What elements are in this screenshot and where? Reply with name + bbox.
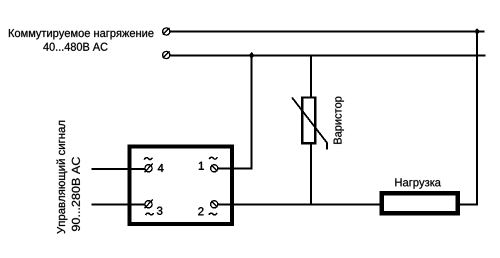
wire: second line L2	[171, 55, 486, 57]
varistor diagonal stroke	[292, 98, 327, 150]
terminal 2 (circle with slash)	[211, 201, 218, 208]
label path: Варистор	[334, 97, 344, 144]
terminal X1 (top input, circle with slash)	[163, 28, 170, 35]
tilde above terminal 1	[209, 157, 217, 159]
label path: pin 3	[157, 207, 162, 215]
label path: 90...280В AC	[72, 157, 80, 231]
terminal 3 (circle with slash)	[144, 200, 152, 209]
label path: Коммутируемое нагряжение	[9, 29, 154, 39]
wire: control input to terminal 3	[91, 204, 145, 206]
wire: relay terminal 2 to load	[218, 204, 380, 206]
terminal 4 (circle with slash)	[144, 164, 152, 173]
load R body	[382, 193, 458, 213]
junction dot on L1 at x=477	[474, 28, 480, 35]
wire: control input to terminal 4	[91, 168, 145, 170]
wire: varistor branch vertical	[310, 56, 312, 205]
terminal X2 (second input, circle with slash)	[163, 51, 170, 58]
label path: Управляющий сигнал	[56, 121, 67, 234]
wire: right vertical from L1 down to load	[460, 32, 478, 205]
label path: pin 4	[158, 164, 164, 172]
terminal 1 (circle with slash)	[211, 165, 218, 172]
tilde below terminal 2	[209, 213, 217, 215]
label path: 40...480В AC	[43, 43, 107, 51]
junction dot on L2 at x=251.6	[249, 52, 255, 59]
relay box U1	[129, 147, 232, 224]
tilde below terminal 3	[146, 213, 154, 215]
varistor RU1 body	[302, 98, 315, 144]
label path: pin 2	[198, 207, 203, 215]
tilde above terminal 4	[144, 158, 152, 160]
wire: vertical from L2 down to relay terminal 1	[218, 56, 252, 169]
wire: top line L1	[171, 31, 485, 33]
label path: Нагрузка	[395, 178, 441, 188]
label path: pin 1	[199, 162, 204, 170]
